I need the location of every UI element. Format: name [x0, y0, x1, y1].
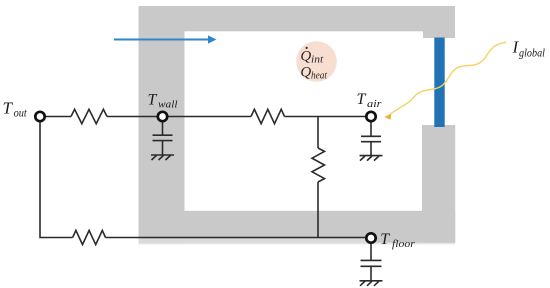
solar gain wavy arrow: [384, 42, 506, 120]
ground under C_air: [360, 156, 383, 161]
label Tfloor: [380, 231, 415, 250]
svg-text:out: out: [14, 108, 28, 120]
wire R3 to bottom: [317, 182, 319, 238]
ventilation arrow: [114, 35, 217, 43]
capacitor C_wall: [153, 121, 173, 155]
svg-text:T: T: [357, 91, 367, 108]
svg-text:floor: floor: [392, 238, 416, 250]
ground under C_floor: [360, 281, 383, 286]
label I_global: [512, 38, 546, 60]
label Twall: [148, 92, 178, 111]
wire R1 to Twall: [107, 116, 158, 118]
internal gains bubble: [296, 41, 337, 82]
svg-text:wall: wall: [158, 99, 178, 111]
wall left: [139, 6, 185, 243]
circuit wires and parts: [40, 109, 383, 285]
wall bottom: [139, 211, 456, 243]
svg-text:Q: Q: [300, 64, 311, 80]
resistor R4 (Tout-Tfloor): [73, 230, 106, 244]
node Tair: [366, 112, 375, 121]
wire Tout down: [40, 121, 73, 237]
wire Twall to R2: [167, 116, 251, 118]
wall top: [139, 6, 456, 31]
wall right: [422, 125, 455, 243]
svg-text:air: air: [367, 98, 382, 110]
svg-text:T: T: [148, 92, 158, 109]
capacitor C_air: [361, 121, 381, 155]
node Tout: [35, 112, 44, 121]
wire R2 to Tair: [285, 116, 367, 118]
resistor R2 (Twall-Tair): [251, 109, 285, 123]
svg-text:heat: heat: [311, 70, 328, 81]
resistor R3 (Tair-Tfloor vertical): [312, 148, 325, 182]
svg-text:int: int: [311, 55, 324, 66]
label Q_heat: [300, 64, 328, 81]
window lintel: [423, 30, 455, 38]
wire junction down: [317, 117, 319, 149]
ground under C_wall: [151, 155, 174, 160]
capacitor C_floor: [361, 243, 382, 281]
node Tfloor: [366, 233, 375, 242]
svg-text:global: global: [519, 48, 545, 60]
svg-text:T: T: [3, 98, 14, 117]
window glass pane: [434, 38, 444, 128]
wire R4 to Tfloor: [106, 237, 367, 239]
label Tair: [357, 91, 383, 110]
svg-text:T: T: [380, 231, 390, 248]
floor highlight band under wire: [139, 238, 367, 242]
wall bottom lighter strip: [139, 243, 456, 245]
node Twall: [158, 112, 167, 121]
label Qdot_int: [300, 47, 324, 66]
label Tout: [3, 98, 28, 119]
wire Tout to R1: [45, 116, 71, 118]
svg-text:Q: Q: [300, 49, 311, 65]
resistor R1 (Tout-Twall): [71, 109, 107, 123]
